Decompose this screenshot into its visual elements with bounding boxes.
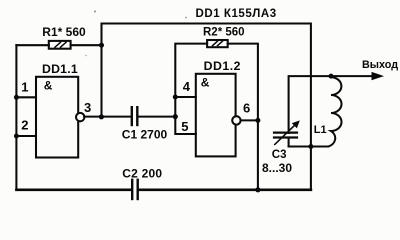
wire pin 4 stub	[175, 96, 196, 98]
gate DD1.2 box	[196, 74, 236, 157]
wire R2 left lead down bus	[175, 44, 207, 134]
gate DD1.2 output inversion bubble pin 6	[232, 116, 240, 124]
svg-text:2: 2	[21, 118, 28, 133]
wire bottom rail	[16, 189, 131, 192]
svg-text:R2* 560: R2* 560	[203, 27, 245, 39]
wire top rail from R1 node to right side	[102, 24, 311, 190]
wire output line	[289, 76, 372, 133]
svg-text:Выход: Выход	[362, 59, 398, 71]
wire pin 2 stub	[16, 135, 36, 137]
gate DD1.1 box	[36, 77, 78, 158]
node pin 1 junction	[14, 95, 19, 100]
wire pin3 to C1	[84, 116, 130, 118]
wire pin 1 stub	[16, 96, 36, 98]
node bottom rail junction	[255, 187, 260, 192]
node pin6 junction	[255, 118, 260, 123]
wire pin6 to bus	[241, 119, 258, 121]
svg-text:L1: L1	[314, 124, 327, 136]
wire C3 bottom to L1 bottom	[289, 145, 311, 147]
node C1 right junction	[173, 114, 178, 119]
node L1 bottom junction	[308, 144, 313, 149]
resistor R2	[207, 40, 228, 47]
node pin3 junction	[99, 114, 104, 119]
resistor R1	[49, 41, 71, 49]
node pin 4 junction	[173, 95, 178, 100]
svg-text:DD1.2: DD1.2	[204, 59, 241, 73]
svg-text:4: 4	[183, 79, 191, 94]
inductor L1	[311, 76, 342, 146]
svg-text:5: 5	[181, 119, 188, 134]
svg-text:&: &	[201, 76, 210, 90]
svg-text:8...30: 8...30	[262, 161, 292, 175]
gate DD1.1 output inversion bubble pin 3	[76, 113, 84, 121]
capacitor C2	[131, 180, 133, 199]
capacitor C3 variable	[274, 132, 297, 134]
wire R1 right lead	[71, 44, 102, 46]
wire R1 node down to pin3 line	[100, 45, 102, 117]
svg-text:&: &	[44, 79, 53, 93]
svg-text:C3: C3	[272, 149, 287, 161]
svg-text:DD1.1: DD1.1	[42, 62, 78, 76]
svg-text:3: 3	[84, 100, 91, 115]
wire left vertical input bus	[15, 45, 17, 190]
node pin 2 junction	[14, 134, 19, 139]
wire C1 to pin4/5 bus	[138, 116, 175, 118]
svg-text:1: 1	[21, 80, 28, 95]
wire R2 right lead	[228, 44, 258, 190]
node L1 top junction	[329, 74, 334, 79]
speckle marks (scan artifacts)	[94, 11, 96, 13]
svg-text:C2 200: C2 200	[122, 167, 162, 181]
wire R1 left lead	[16, 44, 48, 46]
svg-text:R1* 560: R1* 560	[42, 25, 86, 39]
svg-text:6: 6	[243, 101, 250, 116]
node R1 right junction	[99, 43, 104, 48]
capacitor C1	[131, 107, 133, 125]
svg-text:C1 2700: C1 2700	[122, 128, 168, 142]
wire bottom rail right part	[139, 189, 311, 192]
svg-text:DD1 К155ЛА3: DD1 К155ЛА3	[196, 8, 277, 20]
arrowhead output	[372, 72, 385, 80]
